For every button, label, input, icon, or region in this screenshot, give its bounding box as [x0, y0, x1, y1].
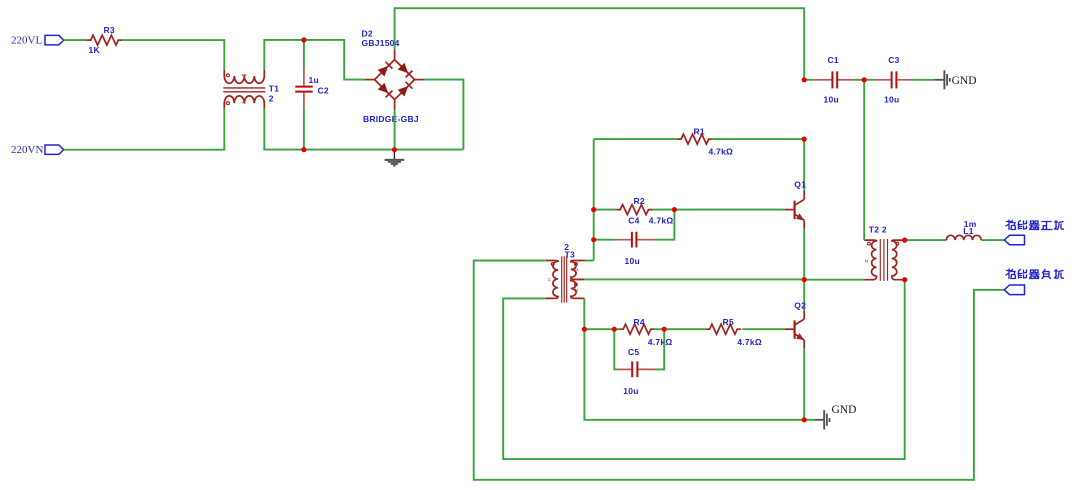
wire T2 prim bottom to Q1/Q2 node [804, 279, 864, 281]
wire bridge bottom to ground [394, 109, 396, 150]
svg-text:C5: C5 [628, 347, 639, 357]
svg-text:4.7kΩ: 4.7kΩ [709, 146, 734, 156]
inductor L1 [946, 219, 981, 240]
wire port 220VL to R3 [64, 39, 87, 41]
svg-text:10u: 10u [884, 95, 899, 105]
svg-text:1: 1 [548, 277, 551, 283]
node C2 bottom [301, 147, 306, 152]
node bridge bottom [392, 147, 397, 152]
port transducer negative [1004, 285, 1024, 295]
wire bridge top to top rail [395, 8, 805, 80]
node R2 left [591, 207, 596, 212]
wire R2 to Q1 base [653, 209, 785, 211]
wire R4 to R5 [654, 328, 706, 330]
svg-text:BRIDGE-GBJ: BRIDGE-GBJ [363, 114, 419, 124]
svg-text:C3: C3 [888, 55, 899, 65]
svg-text:Q1: Q1 [794, 180, 806, 190]
resistor R3 [87, 25, 123, 55]
transistor Q1 [785, 139, 806, 229]
resistor R5 [706, 317, 762, 347]
svg-text:L1: L1 [963, 226, 973, 236]
wire R1 row [594, 138, 677, 140]
label 换能器正极 [1006, 220, 1064, 230]
svg-text:1u: 1u [309, 75, 319, 85]
capacitor C2 [295, 40, 329, 150]
svg-text:10u: 10u [824, 95, 839, 105]
svg-text:1K: 1K [89, 45, 101, 55]
ground GND right [934, 70, 976, 89]
node R4 right [662, 327, 667, 332]
svg-text:T2 2: T2 2 [869, 225, 887, 235]
wire T2 sec top to L1 [905, 239, 947, 241]
capacitor C3 [864, 55, 934, 104]
wire left vertical R1-R2-C4-T3 [593, 139, 595, 260]
svg-text:10u: 10u [625, 256, 640, 266]
wire Q1 emitter down [803, 229, 805, 280]
svg-text:GND: GND [832, 404, 857, 416]
wire T3 prim bottom loop to T2 [503, 280, 905, 459]
wire T3 mid tap to Q1/Q2 node [584, 278, 804, 280]
wire R4 row left [584, 328, 619, 330]
ground GND bottom [814, 404, 856, 430]
svg-text:4.7kΩ: 4.7kΩ [648, 337, 673, 347]
svg-text:1: 1 [896, 258, 899, 264]
wire T3 prim top loop to out port [474, 261, 1004, 480]
svg-text:4.7kΩ: 4.7kΩ [737, 337, 762, 347]
capacitor C1 [804, 55, 864, 104]
svg-text:2: 2 [241, 101, 247, 104]
svg-text:C1: C1 [828, 55, 839, 65]
wire T3 sec bottom down [583, 298, 585, 329]
node C4 left [591, 237, 596, 242]
node R1 right [802, 137, 807, 142]
svg-text:R4: R4 [634, 317, 645, 327]
svg-text:R3: R3 [104, 25, 115, 35]
svg-text:220VN: 220VN [11, 144, 43, 156]
transistor Q2 [785, 280, 806, 349]
port transducer positive [1004, 235, 1024, 245]
svg-text:C4: C4 [628, 215, 639, 225]
resistor R1 [677, 126, 733, 156]
node Q2 emitter ground [802, 417, 807, 422]
svg-text:C2: C2 [318, 86, 329, 96]
wire T1 secondary bottom along bottom rail [264, 109, 463, 150]
capacitor C4 [594, 210, 675, 266]
resistor R2 [594, 196, 674, 226]
svg-text:T3: T3 [565, 249, 575, 259]
capacitor C5 [614, 329, 664, 396]
node R2 right [672, 207, 677, 212]
svg-text:4.7kΩ: 4.7kΩ [649, 216, 674, 226]
wire R1 to collector rail [711, 138, 804, 140]
wire bridge right loop [424, 80, 464, 150]
wire 220VN to T1 primary bottom [64, 109, 225, 150]
bridge rectifier D2 [362, 29, 424, 124]
transformer T3 [546, 242, 585, 302]
transformer T2 [864, 225, 905, 281]
resistor R4 [619, 317, 672, 347]
svg-text:10u: 10u [623, 386, 638, 396]
svg-text:T1: T1 [269, 84, 279, 94]
svg-text:R1: R1 [694, 126, 705, 136]
port 220VN [11, 144, 64, 156]
svg-text:N: N [575, 287, 579, 293]
wire R3 to T1 primary top [122, 40, 224, 70]
node C1/C3 middle [862, 77, 867, 82]
node T2 sec bottom [902, 277, 907, 282]
svg-text:2: 2 [269, 94, 274, 104]
wire T2 prim top to C1/C3 node [863, 80, 865, 240]
port 220VL [11, 35, 64, 47]
node C1 left [802, 77, 807, 82]
svg-text:N: N [575, 267, 579, 273]
svg-text:220VL: 220VL [11, 35, 42, 47]
ground below bridge [385, 150, 405, 166]
wire Q2 emitter to bottom rail [803, 349, 805, 420]
wire R5 to Q2 base [742, 328, 784, 330]
node Q1/Q2 middle [802, 277, 807, 282]
wire bottom rail [584, 329, 814, 420]
wire L1 to port [981, 239, 1004, 241]
node T2 sec top [902, 238, 907, 243]
node C5 top left [612, 327, 617, 332]
svg-text:R5: R5 [723, 317, 734, 327]
wire T1 secondary top to C2/bridge [264, 40, 365, 80]
node R4 left [582, 327, 587, 332]
node C2 top [301, 37, 306, 42]
svg-text:Q2: Q2 [794, 301, 806, 311]
transformer T1 [223, 70, 279, 109]
wire T3 sec top to C4 node [585, 260, 594, 262]
svg-text:N: N [865, 259, 869, 265]
svg-text:R2: R2 [634, 196, 645, 206]
label 换能器负极 [1006, 269, 1064, 279]
svg-text:GND: GND [952, 75, 977, 87]
